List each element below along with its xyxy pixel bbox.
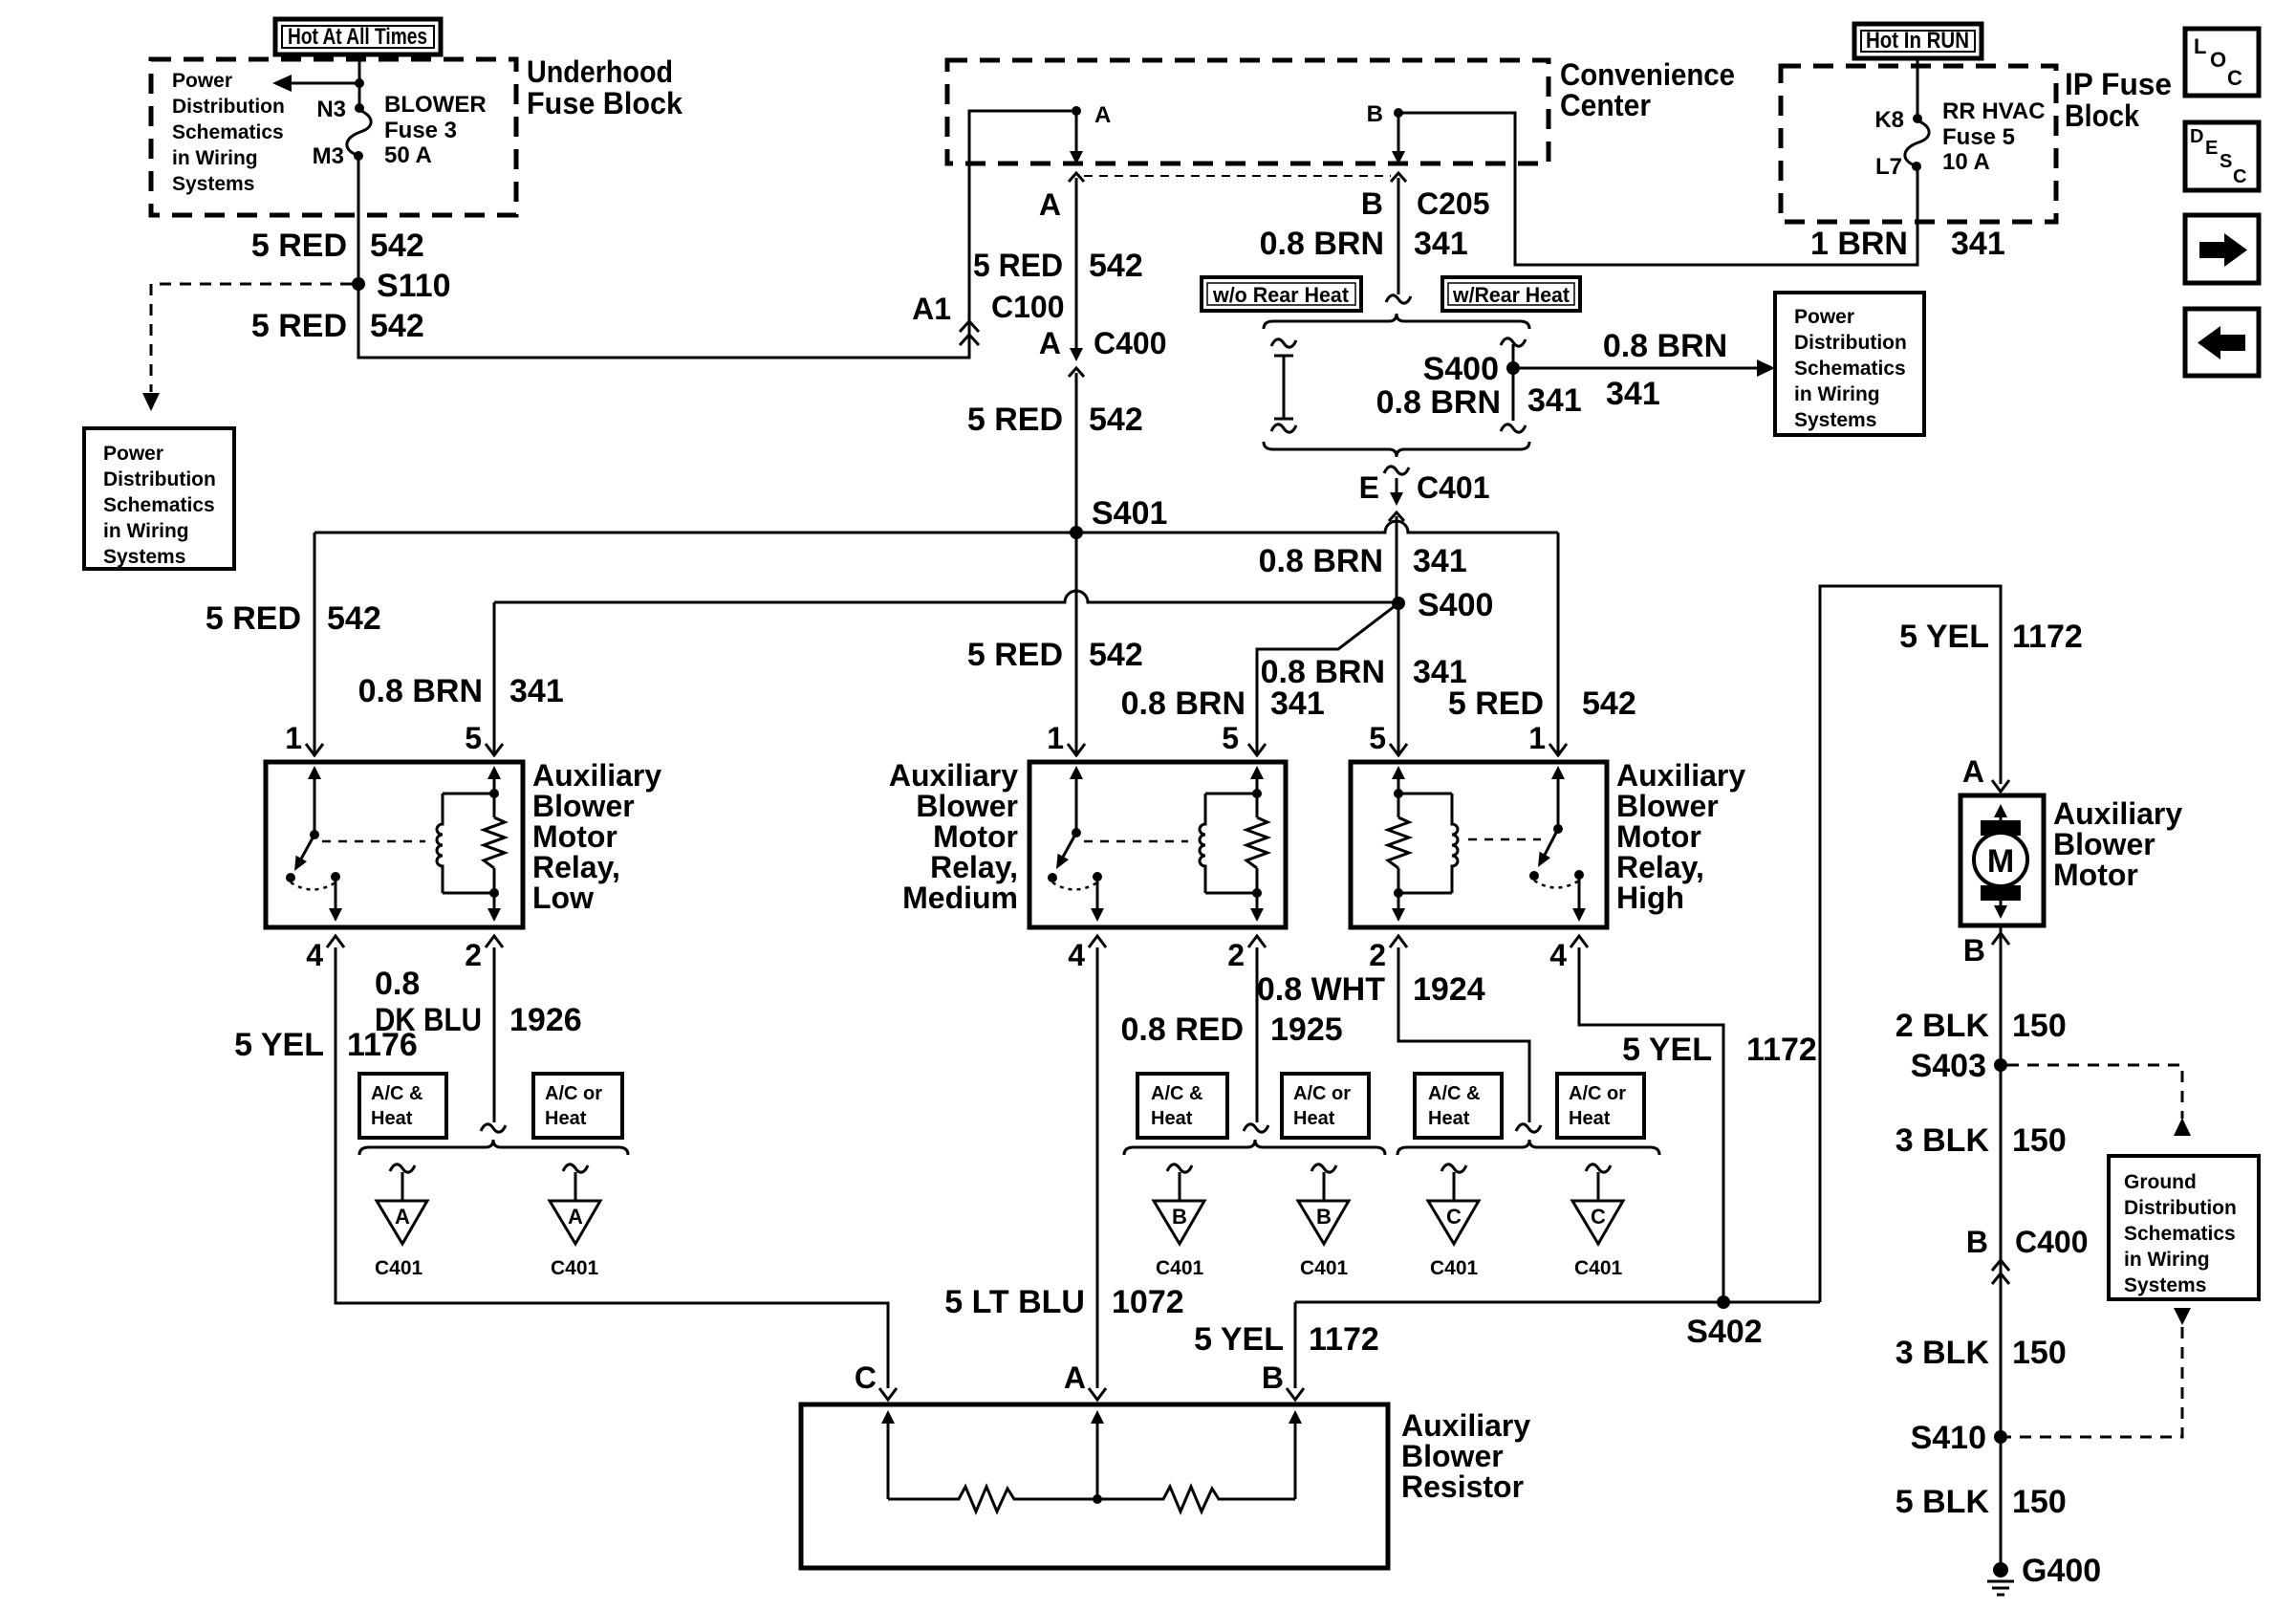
low relay coil bbox=[437, 794, 494, 893]
svg-text:Power: Power bbox=[1794, 306, 1854, 328]
svg-text:1072: 1072 bbox=[1112, 1284, 1184, 1320]
svg-text:IP Fuse: IP Fuse bbox=[2065, 67, 2172, 101]
svg-text:1172: 1172 bbox=[1309, 1321, 1379, 1358]
high relay pin 1 chevron bbox=[1549, 744, 1567, 755]
wire: arrow to power distribution (left) bbox=[272, 75, 359, 92]
svg-text:B: B bbox=[1367, 101, 1383, 127]
svg-text:C401: C401 bbox=[1417, 470, 1490, 505]
svg-text:1172: 1172 bbox=[1746, 1032, 1817, 1068]
svg-text:3 BLK: 3 BLK bbox=[1895, 1122, 1990, 1159]
reference box: Ground Distribution Schematics in Wiring Systems bbox=[2109, 1156, 2259, 1299]
motor M: Auxiliary Blower Motor bbox=[1960, 754, 2044, 968]
svg-text:Center: Center bbox=[1560, 88, 1651, 122]
svg-text:C400: C400 bbox=[1094, 326, 1167, 360]
svg-text:Distribution: Distribution bbox=[2124, 1197, 2237, 1219]
wire: 2 BLK 150 from motor B to S403 bbox=[2000, 925, 2003, 1570]
svg-text:Heat: Heat bbox=[1569, 1108, 1611, 1129]
wire label: 0.8 BRN | 341 (high pin 5) bbox=[1261, 654, 1467, 690]
svg-text:Resistor: Resistor bbox=[1401, 1469, 1524, 1504]
svg-text:Heat: Heat bbox=[1293, 1108, 1335, 1129]
connector drop: C401 C (w/o rear heat) bbox=[1428, 1164, 1479, 1279]
wire: E C401 down to S400 splice bbox=[1396, 478, 1398, 603]
svg-text:M3: M3 bbox=[313, 143, 344, 169]
svg-text:0.8 BRN: 0.8 BRN bbox=[1260, 226, 1384, 262]
svg-text:E: E bbox=[2205, 138, 2218, 159]
wire: S401 horizontal bus 5 RED 542 (with hop over E wire) bbox=[314, 521, 1558, 533]
relay K-med: Auxiliary Blower Motor Relay, Medium bbox=[1029, 762, 1286, 927]
svg-text:1: 1 bbox=[1047, 721, 1064, 755]
svg-text:2: 2 bbox=[465, 938, 482, 972]
svg-text:5 YEL: 5 YEL bbox=[1899, 619, 1989, 655]
svg-text:5: 5 bbox=[1222, 721, 1239, 755]
svg-text:L7: L7 bbox=[1875, 154, 1902, 180]
wire: Hot In RUN down to fuse 5 bbox=[1917, 58, 1919, 119]
wire label: 0.8 BRN | 341 (medium pin 5) bbox=[1121, 685, 1325, 722]
label: Auxiliary Blower Motor bbox=[2053, 796, 2182, 892]
brace: medium option brace bbox=[1124, 1140, 1385, 1155]
svg-text:A: A bbox=[395, 1205, 410, 1229]
wire label: 0.8 BRN | 341 (B drop) bbox=[1260, 226, 1468, 262]
svg-text:C: C bbox=[855, 1360, 877, 1395]
svg-text:Auxiliary: Auxiliary bbox=[889, 758, 1018, 793]
resistor pin A chevron bbox=[1089, 1388, 1106, 1400]
svg-text:Power: Power bbox=[103, 443, 163, 465]
svg-text:542: 542 bbox=[370, 308, 424, 344]
high relay coil link (dashed) bbox=[1468, 838, 1541, 841]
high relay switch bbox=[1529, 766, 1586, 922]
svg-text:1: 1 bbox=[1528, 721, 1546, 755]
svg-text:0.8 BRN: 0.8 BRN bbox=[358, 673, 483, 709]
svg-text:1 BRN: 1 BRN bbox=[1810, 226, 1908, 262]
label: Auxiliary Blower Resistor bbox=[1401, 1408, 1530, 1504]
wire: 0.8 DK BLU 1926 from low pin 2 bbox=[493, 947, 496, 1122]
svg-text:B: B bbox=[1262, 1360, 1284, 1395]
svg-text:S400: S400 bbox=[1423, 351, 1499, 387]
brace: high option brace bbox=[1397, 1140, 1659, 1155]
option box: A/C or Heat (medium, right) bbox=[1282, 1074, 1369, 1138]
connector B | C400 (double chevron) bbox=[1966, 1225, 2089, 1284]
svg-text:A1: A1 bbox=[912, 292, 951, 326]
resistor internal pin A stub bbox=[1091, 1410, 1104, 1504]
svg-text:E: E bbox=[1359, 470, 1379, 505]
wire label: 5 LT BLU | 1072 bbox=[944, 1284, 1183, 1320]
wire: 5 RED 542 S401 down to Medium relay pin 1 bbox=[1075, 533, 1078, 753]
reference box: Power Distribution Schematics in Wiring Systems (left) bbox=[84, 428, 234, 569]
low relay pin 2 chevron bbox=[486, 936, 503, 947]
ground G400 bbox=[1987, 1553, 2101, 1595]
svg-text:1924: 1924 bbox=[1413, 971, 1485, 1008]
svg-text:1172: 1172 bbox=[2012, 619, 2083, 655]
medium relay coil link (dashed) bbox=[1084, 840, 1188, 843]
svg-text:C100: C100 bbox=[991, 290, 1065, 324]
wire label: 0.8 DK BLU | 1926 bbox=[375, 966, 582, 1038]
option label box: w/Rear Heat bbox=[1442, 277, 1580, 311]
legend box DESC bbox=[2185, 122, 2259, 190]
svg-text:0.8 RED: 0.8 RED bbox=[1121, 1012, 1245, 1048]
svg-text:341: 341 bbox=[1270, 685, 1325, 722]
legend box: right arrow bbox=[2185, 215, 2259, 283]
connector drop: C401 B (w/ rear heat) bbox=[1298, 1164, 1349, 1279]
high relay pin 5 chevron bbox=[1390, 744, 1407, 755]
svg-text:A/C &: A/C & bbox=[1428, 1083, 1480, 1104]
svg-text:542: 542 bbox=[1089, 637, 1143, 673]
wire label: 3 BLK | 150 (upper) bbox=[1895, 1122, 2067, 1159]
svg-text:Distribution: Distribution bbox=[103, 468, 216, 490]
svg-text:Systems: Systems bbox=[2124, 1274, 2206, 1296]
node A in Convenience Center bbox=[1072, 102, 1111, 128]
connector A1 / C100 (double chevron) bbox=[912, 290, 1064, 345]
svg-text:O: O bbox=[2210, 48, 2226, 72]
svg-text:0.8 BRN: 0.8 BRN bbox=[1261, 654, 1385, 690]
svg-text:Ground: Ground bbox=[2124, 1171, 2197, 1193]
dashed wire: S403 to Ground Distribution box bbox=[2007, 1065, 2191, 1136]
svg-text:B: B bbox=[1316, 1205, 1332, 1229]
dashed wire from S110 to left and down to Power Distribution box bbox=[142, 284, 352, 411]
svg-text:2: 2 bbox=[1369, 938, 1386, 972]
label: IP Fuse Block bbox=[2065, 67, 2172, 133]
svg-text:341: 341 bbox=[1527, 382, 1582, 419]
svg-text:50 A: 50 A bbox=[384, 142, 432, 168]
svg-text:Blower: Blower bbox=[532, 789, 635, 823]
label box: Hot At All Times bbox=[275, 19, 441, 54]
svg-text:BLOWER: BLOWER bbox=[384, 92, 487, 118]
wire label: 5 RED | 542 above S110 bbox=[251, 228, 424, 264]
svg-text:1925: 1925 bbox=[1270, 1012, 1343, 1048]
svg-text:4: 4 bbox=[306, 938, 323, 972]
svg-text:0.8: 0.8 bbox=[375, 966, 420, 1002]
option box: A/C & Heat (medium, left) bbox=[1137, 1074, 1227, 1138]
option box: A/C or Heat (high, right) bbox=[1557, 1074, 1644, 1138]
high relay pin 4 chevron bbox=[1570, 936, 1588, 947]
svg-text:341: 341 bbox=[1413, 654, 1467, 690]
svg-text:5 RED: 5 RED bbox=[251, 308, 347, 344]
option branch: w/Rear Heat with S400 bbox=[1501, 338, 1526, 432]
svg-text:Relay,: Relay, bbox=[1616, 850, 1704, 884]
node S410 bbox=[1911, 1420, 2007, 1456]
svg-text:Blower: Blower bbox=[1616, 789, 1719, 823]
svg-text:DK BLU: DK BLU bbox=[375, 1002, 482, 1038]
svg-text:5 RED: 5 RED bbox=[206, 600, 301, 637]
reference box: Power Distribution Schematics in Wiring Systems (right) bbox=[1775, 293, 1924, 435]
svg-text:Systems: Systems bbox=[1794, 409, 1876, 431]
svg-text:5 LT BLU: 5 LT BLU bbox=[944, 1284, 1085, 1320]
fuse F3: BLOWER Fuse 3 50 A bbox=[347, 103, 371, 161]
fuse F5: RR HVAC Fuse 5 10 A bbox=[1905, 114, 1929, 171]
brace: top option brace bbox=[1264, 314, 1529, 329]
svg-text:5 YEL: 5 YEL bbox=[1194, 1321, 1284, 1358]
svg-text:A/C or: A/C or bbox=[545, 1083, 602, 1104]
medium relay pin 2 chevron bbox=[1248, 936, 1266, 947]
svg-text:5 RED: 5 RED bbox=[1448, 685, 1544, 722]
svg-text:Schematics: Schematics bbox=[2124, 1223, 2236, 1245]
svg-text:Blower: Blower bbox=[916, 789, 1018, 823]
resistor element 1 (C to A) bbox=[888, 1487, 1097, 1512]
svg-text:Hot In RUN: Hot In RUN bbox=[1866, 28, 1969, 54]
resistor pin B chevron bbox=[1287, 1388, 1304, 1400]
node S402 bbox=[1686, 1295, 1762, 1350]
svg-text:Auxiliary: Auxiliary bbox=[1616, 758, 1745, 793]
svg-text:A/C &: A/C & bbox=[371, 1083, 422, 1104]
svg-text:542: 542 bbox=[370, 228, 424, 264]
svg-text:C401: C401 bbox=[1300, 1257, 1349, 1279]
svg-text:Convenience: Convenience bbox=[1560, 57, 1735, 92]
svg-text:Auxiliary: Auxiliary bbox=[532, 758, 661, 793]
wire: 5 YEL 1176 from low pin 4 to resistor pin C bbox=[336, 947, 888, 1388]
svg-text:0.8 BRN: 0.8 BRN bbox=[1259, 543, 1383, 579]
svg-text:M: M bbox=[1987, 843, 2014, 880]
wire label: 0.8 RED | 1925 bbox=[1121, 1012, 1343, 1048]
svg-text:C401: C401 bbox=[1574, 1257, 1623, 1279]
svg-text:L: L bbox=[2194, 34, 2206, 58]
note: Power Distribution Schematics in Wiring Systems (in dashed box) bbox=[172, 70, 285, 195]
connector drop: C401 A (w/o rear heat) bbox=[375, 1164, 427, 1279]
svg-text:2 BLK: 2 BLK bbox=[1895, 1008, 1990, 1044]
low relay pin 1 chevron bbox=[306, 744, 323, 755]
svg-text:Schematics: Schematics bbox=[1794, 358, 1906, 380]
svg-text:341: 341 bbox=[1413, 543, 1467, 579]
wire label: 0.8 BRN | 341 (low pin 5) bbox=[358, 673, 564, 709]
low relay pin 5 chevron bbox=[486, 744, 503, 755]
svg-text:B: B bbox=[1172, 1205, 1187, 1229]
splice tilde (high pin2 option split) bbox=[1516, 1124, 1541, 1132]
svg-text:Heat: Heat bbox=[545, 1108, 587, 1129]
svg-text:Heat: Heat bbox=[1151, 1108, 1193, 1129]
splice tilde on B wire bbox=[1386, 295, 1411, 303]
wire: 0.8 BRN 341 horizontal from low pin 5 to S400 (hop over medium pin1 wire) bbox=[494, 591, 1398, 602]
option box: A/C or Heat (low, right) bbox=[533, 1074, 622, 1138]
svg-text:Heat: Heat bbox=[371, 1108, 413, 1129]
svg-text:RR HVAC: RR HVAC bbox=[1942, 98, 2046, 124]
wire label: 5 RED | 542 (medium pin 1) bbox=[967, 637, 1143, 673]
low relay pin 4 chevron bbox=[327, 936, 344, 947]
svg-text:341: 341 bbox=[1606, 376, 1660, 412]
svg-text:C400: C400 bbox=[2015, 1225, 2089, 1259]
medium relay resistor bbox=[1246, 766, 1267, 922]
value label: RR HVAC Fuse 5 10 A bbox=[1942, 98, 2046, 175]
svg-text:5 YEL: 5 YEL bbox=[1622, 1032, 1712, 1068]
wire: 5 RED 542 from C400 down to S401 bbox=[1075, 373, 1078, 533]
svg-text:S: S bbox=[2220, 151, 2232, 172]
splice tilde (medium pin2 option split) bbox=[1244, 1124, 1268, 1132]
svg-text:Schematics: Schematics bbox=[172, 121, 284, 143]
resistor internal pin C stub bbox=[881, 1410, 895, 1499]
svg-text:C: C bbox=[2227, 66, 2242, 90]
wire label: 1 BRN | 341 bbox=[1810, 226, 2005, 262]
Underhood Fuse Block dashed box bbox=[151, 59, 516, 215]
svg-text:5 RED: 5 RED bbox=[251, 228, 347, 264]
svg-text:341: 341 bbox=[1951, 226, 2005, 262]
resistor pack: Auxiliary Blower Resistor bbox=[801, 1404, 1388, 1568]
connector A | C400 (arrow + chevron) bbox=[1039, 326, 1167, 377]
svg-text:10 A: 10 A bbox=[1942, 149, 1990, 175]
svg-text:542: 542 bbox=[1582, 685, 1636, 722]
svg-text:A: A bbox=[1962, 754, 1984, 789]
svg-text:C205: C205 bbox=[1417, 186, 1490, 221]
svg-text:542: 542 bbox=[327, 600, 381, 637]
option box: A/C & Heat (low, left) bbox=[359, 1074, 446, 1138]
dashed wire: Ground Distribution box to S410 bbox=[2007, 1308, 2191, 1437]
svg-text:5 RED: 5 RED bbox=[967, 402, 1063, 438]
svg-text:A: A bbox=[1094, 102, 1111, 128]
svg-text:Blower: Blower bbox=[2053, 827, 2155, 861]
svg-text:Schematics: Schematics bbox=[103, 494, 215, 516]
brace: low option brace bbox=[359, 1140, 628, 1155]
svg-text:Medium: Medium bbox=[902, 881, 1018, 915]
svg-text:4: 4 bbox=[1549, 938, 1567, 972]
low relay switch bbox=[286, 766, 342, 922]
svg-text:w/o Rear Heat: w/o Rear Heat bbox=[1212, 283, 1350, 307]
resistor element 2 (A to B) bbox=[1097, 1487, 1295, 1512]
svg-text:5 RED: 5 RED bbox=[973, 248, 1063, 284]
svg-text:Distribution: Distribution bbox=[172, 96, 285, 118]
wire: 5 RED 542 from fuse M3 down to S110 and corner bbox=[358, 111, 1072, 358]
wire: A down through connector C205 bbox=[1069, 111, 1084, 352]
high relay coil bbox=[1398, 794, 1458, 893]
svg-text:C401: C401 bbox=[1156, 1257, 1204, 1279]
wire: S402 horizontal to resistor pin B and up to motor bbox=[1295, 586, 2001, 1388]
low relay coil link (dashed) bbox=[322, 840, 425, 843]
medium relay pin 5 chevron bbox=[1248, 744, 1266, 755]
label: Auxiliary Blower Motor Relay, Low bbox=[532, 758, 661, 915]
svg-text:C: C bbox=[1446, 1205, 1462, 1229]
wire: 5 LT BLU 1072 from medium pin 4 to resistor pin A bbox=[1096, 947, 1099, 1388]
wire: S400 diagonal branch to Medium relay pin 5 bbox=[1257, 603, 1398, 753]
svg-text:S402: S402 bbox=[1686, 1314, 1762, 1350]
svg-text:S403: S403 bbox=[1911, 1048, 1986, 1084]
wire label: 0.8 WHT | 1924 bbox=[1257, 971, 1485, 1008]
svg-text:B: B bbox=[1966, 1225, 1988, 1259]
svg-text:Fuse Block: Fuse Block bbox=[527, 86, 682, 120]
option box: A/C & Heat (high, left) bbox=[1415, 1074, 1502, 1138]
svg-text:C401: C401 bbox=[1430, 1257, 1479, 1279]
svg-text:A: A bbox=[568, 1205, 583, 1229]
node: junction at top of fuse bbox=[355, 78, 364, 88]
label: Auxiliary Blower Motor Relay, High bbox=[1616, 758, 1745, 915]
Convenience Center dashed box bbox=[947, 60, 1549, 163]
connector E | C401 (arrow + chevron) bbox=[1359, 470, 1490, 521]
wire: S400 down to High relay pin 5 bbox=[1397, 603, 1400, 753]
svg-text:5: 5 bbox=[1369, 721, 1386, 755]
wire label: 5 BLK | 150 bbox=[1895, 1484, 2067, 1520]
wire: 0.8 BRN down to Low relay pin 5 bbox=[493, 602, 496, 753]
option branch: w/o Rear Heat passthrough bbox=[1271, 339, 1296, 432]
medium relay switch bbox=[1048, 766, 1104, 922]
svg-text:1926: 1926 bbox=[509, 1002, 582, 1038]
svg-text:542: 542 bbox=[1089, 402, 1143, 438]
svg-text:Low: Low bbox=[532, 881, 594, 915]
svg-text:Block: Block bbox=[2065, 98, 2139, 133]
svg-text:3 BLK: 3 BLK bbox=[1895, 1335, 1990, 1371]
svg-text:A: A bbox=[1064, 1360, 1086, 1395]
svg-text:Systems: Systems bbox=[103, 546, 185, 568]
node S403 bbox=[1911, 1048, 2007, 1084]
node S401 bbox=[1070, 495, 1167, 539]
relay K-low: Auxiliary Blower Motor Relay, Low bbox=[266, 762, 523, 927]
wire: feed from Hot At All Times down to fuse 3 bbox=[358, 54, 361, 108]
medium relay pin 4 chevron bbox=[1089, 936, 1106, 947]
connector drop: C401 A (w/ rear heat) bbox=[550, 1164, 600, 1279]
medium relay pin 1 chevron bbox=[1068, 744, 1085, 755]
svg-text:Relay,: Relay, bbox=[532, 850, 620, 884]
svg-text:150: 150 bbox=[2012, 1008, 2067, 1044]
svg-text:D: D bbox=[2190, 126, 2203, 147]
node S400 (w/Rear Heat) bbox=[1423, 351, 1520, 387]
svg-text:S401: S401 bbox=[1092, 495, 1167, 532]
high relay pin 2 chevron bbox=[1390, 936, 1407, 947]
thin dashed connector link C205 bbox=[1084, 175, 1391, 177]
svg-text:Relay,: Relay, bbox=[930, 850, 1018, 884]
svg-text:C401: C401 bbox=[375, 1257, 423, 1279]
wire label: 5 YEL | 1176 bbox=[234, 1027, 418, 1063]
wire label: 5 RED | 542 (low pin 1) bbox=[206, 600, 381, 637]
svg-text:in Wiring: in Wiring bbox=[172, 147, 258, 169]
svg-text:C: C bbox=[2233, 166, 2246, 187]
svg-text:A/C or: A/C or bbox=[1569, 1083, 1626, 1104]
node S400 (main splice) bbox=[1392, 587, 1493, 623]
wire: B branch right to IP fuse block bbox=[1398, 113, 1917, 265]
connector drop: C401 B (w/o rear heat) bbox=[1154, 1164, 1204, 1279]
svg-text:Fuse 5: Fuse 5 bbox=[1942, 124, 2015, 150]
svg-text:150: 150 bbox=[2012, 1122, 2067, 1159]
label: Convenience Center bbox=[1560, 57, 1735, 122]
svg-text:in Wiring: in Wiring bbox=[2124, 1249, 2210, 1271]
svg-text:5 BLK: 5 BLK bbox=[1895, 1484, 1990, 1520]
svg-text:K8: K8 bbox=[1874, 107, 1904, 133]
svg-text:C: C bbox=[1591, 1205, 1606, 1229]
svg-text:0.8 BRN: 0.8 BRN bbox=[1376, 384, 1501, 421]
svg-text:542: 542 bbox=[1089, 248, 1143, 284]
svg-text:150: 150 bbox=[2012, 1335, 2067, 1371]
svg-text:w/Rear Heat: w/Rear Heat bbox=[1452, 283, 1570, 307]
label: Underhood Fuse Block bbox=[527, 54, 682, 120]
svg-text:Systems: Systems bbox=[172, 173, 254, 195]
svg-text:Blower: Blower bbox=[1401, 1439, 1504, 1473]
wire: 0.8 WHT 1924 from high pin 2 bbox=[1398, 947, 1529, 1122]
wire label: 5 RED | 542 (A drop) bbox=[973, 248, 1143, 284]
svg-text:Underhood: Underhood bbox=[527, 54, 673, 89]
svg-text:Motor: Motor bbox=[532, 819, 617, 854]
svg-text:Fuse 3: Fuse 3 bbox=[384, 118, 457, 143]
svg-text:S400: S400 bbox=[1418, 587, 1493, 623]
svg-text:0.8 WHT: 0.8 WHT bbox=[1257, 971, 1385, 1008]
svg-text:Heat: Heat bbox=[1428, 1108, 1470, 1129]
label: Auxiliary Blower Motor Relay, Medium bbox=[889, 758, 1018, 915]
svg-text:in Wiring: in Wiring bbox=[103, 520, 189, 542]
wire label: 2 BLK | 150 bbox=[1895, 1008, 2067, 1044]
svg-text:1: 1 bbox=[285, 721, 302, 755]
wire label: 5 RED | 542 below S110 bbox=[251, 308, 424, 344]
svg-text:150: 150 bbox=[2012, 1484, 2067, 1520]
wire label: 3 BLK | 150 (lower) bbox=[1895, 1335, 2067, 1371]
svg-text:A: A bbox=[1039, 326, 1061, 360]
node B in Convenience Center bbox=[1367, 101, 1403, 127]
svg-text:Power: Power bbox=[172, 70, 232, 92]
svg-text:S410: S410 bbox=[1911, 1420, 1986, 1456]
wire: B down through connector C205 bbox=[1391, 113, 1406, 294]
svg-text:A/C &: A/C & bbox=[1151, 1083, 1202, 1104]
svg-text:G400: G400 bbox=[2022, 1553, 2101, 1589]
IP Fuse Block dashed box bbox=[1781, 66, 2056, 222]
svg-text:5: 5 bbox=[465, 721, 482, 755]
svg-text:4: 4 bbox=[1068, 938, 1085, 972]
svg-text:A: A bbox=[1039, 187, 1061, 222]
wire label: 5 YEL | 1172 (resistor pin B) bbox=[1194, 1321, 1379, 1358]
svg-text:Motor: Motor bbox=[933, 819, 1018, 854]
svg-text:N3: N3 bbox=[316, 97, 346, 122]
wire: 5 RED 542 down to Low relay pin 1 bbox=[314, 533, 316, 753]
node S110 bbox=[352, 268, 451, 304]
svg-text:341: 341 bbox=[1414, 226, 1468, 262]
